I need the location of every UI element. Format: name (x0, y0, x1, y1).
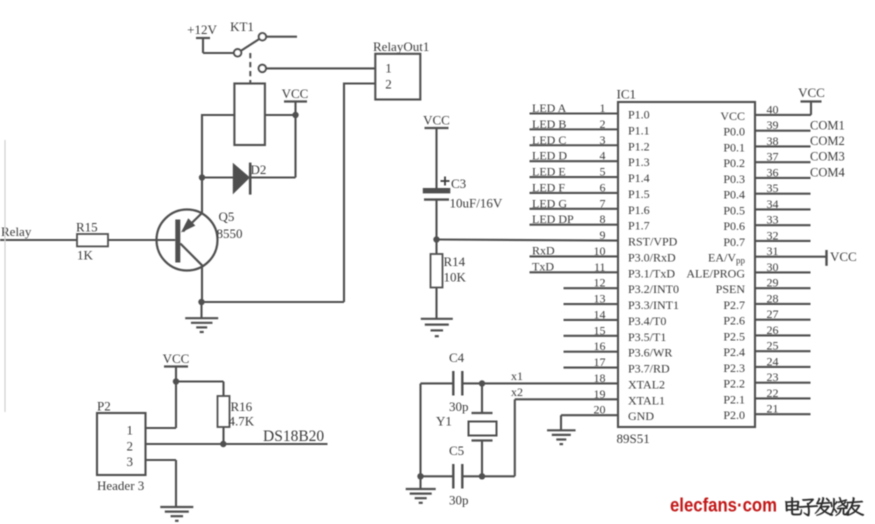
ground (R14) (421, 319, 453, 336)
IC U1 pin 30 (ALE/PROG) wire+number (755, 271, 811, 273)
wire VCC stem down (175, 367, 177, 429)
transistor Q5 body circle (157, 210, 218, 271)
svg-text:GND: GND (628, 409, 654, 423)
svg-text:VCC: VCC (423, 113, 450, 128)
IC U1 pin 17 (P3.7/RD) wire+number (564, 367, 619, 369)
svg-text:2: 2 (127, 439, 134, 454)
svg-text:P0.1: P0.1 (723, 140, 745, 154)
svg-text:39: 39 (767, 118, 779, 132)
IC U1 pin 6 (P1.5) wire+number (530, 192, 619, 194)
svg-text:P1.3: P1.3 (628, 155, 650, 169)
svg-text:1: 1 (385, 61, 392, 76)
svg-text:Y1: Y1 (436, 414, 452, 429)
svg-text:x1: x1 (511, 369, 523, 383)
svg-text:D2: D2 (251, 162, 267, 177)
svg-text:11: 11 (594, 260, 606, 274)
capacitor C5 plates (452, 464, 454, 489)
IC U1 pin 9 (RST/VPD) wire+number (437, 240, 619, 241)
scan artifact faint left border (4, 140, 6, 412)
IC U1 pin 34 (P0.5) wire+number (755, 208, 811, 210)
wire anode to diode (202, 176, 233, 178)
svg-text:LED E: LED E (532, 165, 566, 179)
IC U1 pin 12 (P3.2/INT0) wire+number (564, 287, 619, 289)
IC U1 pin 5 (P1.4) wire+number (530, 176, 619, 178)
crystal Y1 body (469, 422, 497, 436)
node C5 right junction (479, 473, 485, 479)
svg-text:LED D: LED D (532, 149, 567, 163)
svg-text:24: 24 (767, 354, 779, 368)
power VCC (pin 31 EA) (825, 250, 827, 266)
wire emitter to bottom node (201, 266, 203, 302)
svg-text:P0.6: P0.6 (723, 219, 745, 233)
wire P2 pin 3 to ground (146, 459, 177, 461)
svg-text:VCC: VCC (798, 85, 825, 100)
svg-text:P3.2/INT0: P3.2/INT0 (628, 282, 679, 296)
IC U1 pin 2 (P1.1) wire+number (530, 128, 619, 130)
capacitor C4 plates (452, 371, 454, 396)
svg-text:1: 1 (600, 101, 606, 115)
svg-text:2: 2 (385, 77, 392, 92)
svg-text:3: 3 (600, 133, 606, 147)
svg-text:7: 7 (600, 196, 606, 210)
wire C4/C5 left common (419, 383, 421, 488)
svg-text:DS18B20: DS18B20 (263, 428, 324, 445)
switch KT1 throw contact (259, 33, 266, 40)
IC U1 pin 4 (P1.3) wire+number (530, 160, 619, 162)
svg-text:P2.5: P2.5 (723, 329, 745, 343)
svg-text:+12V: +12V (187, 22, 217, 37)
svg-text:10uF/16V: 10uF/16V (450, 196, 503, 211)
svg-text:30p: 30p (449, 493, 469, 508)
wire R15 to Q5 base (108, 239, 175, 241)
IC U1 pin 18 (XTAL2) wire+number (462, 382, 618, 384)
capacitor C3 top plate (423, 188, 451, 193)
wire +12V stem (202, 38, 204, 53)
ground (crystal) (406, 489, 436, 503)
wire ground stem (200, 302, 202, 318)
wire VCC stem to junction (294, 102, 296, 116)
IC U1 pin 16 (P3.6/WR) wire+number (564, 351, 619, 353)
capacitor C5 left wire (421, 475, 453, 477)
diode D2 cathode bar (249, 163, 252, 195)
svg-text:36: 36 (767, 165, 779, 179)
svg-text:COM2: COM2 (810, 134, 845, 148)
svg-text:RxD: RxD (532, 243, 555, 257)
svg-text:1K: 1K (77, 248, 94, 263)
svg-text:COM4: COM4 (810, 165, 845, 179)
IC U1 pin 1 (P1.0) wire+number (530, 112, 619, 114)
svg-text:8550: 8550 (217, 226, 243, 241)
svg-text:30p: 30p (449, 399, 469, 414)
svg-text:P3.5/T1: P3.5/T1 (628, 330, 666, 344)
ground (header) (160, 507, 193, 521)
svg-text:29: 29 (767, 276, 779, 290)
svg-text:P3.6/WR: P3.6/WR (628, 346, 672, 360)
node emitter/ground junction (198, 299, 204, 305)
transistor Q5 base bar (175, 220, 180, 263)
svg-text:P3.1/TxD: P3.1/TxD (628, 266, 675, 280)
IC U1 pin 37 (P0.2) wire+number (755, 161, 811, 163)
svg-text:P0.2: P0.2 (723, 156, 745, 170)
svg-text:COM3: COM3 (810, 150, 845, 164)
svg-text:PSEN: PSEN (716, 282, 746, 296)
svg-text:P0.4: P0.4 (723, 188, 745, 202)
svg-text:LED DP: LED DP (532, 212, 574, 226)
svg-text:18: 18 (594, 371, 606, 385)
svg-text:P2.6: P2.6 (723, 314, 745, 328)
IC U1 pin 35 (P0.4) wire+number (755, 193, 811, 195)
diode D2 triangle (233, 163, 250, 195)
svg-text:x2: x2 (511, 385, 523, 399)
wire x1 down to crystal (481, 383, 483, 413)
svg-text:10K: 10K (444, 270, 467, 285)
logo chinese characters dianzifashaoyou (785, 497, 802, 515)
IC U1 pin 13 (P3.3/INT1) wire+number (564, 303, 619, 305)
svg-text:P2.2: P2.2 (723, 377, 745, 391)
svg-text:21: 21 (767, 402, 779, 416)
svg-text:10: 10 (594, 244, 606, 258)
svg-text:LED F: LED F (532, 180, 565, 194)
transistor Q5 collector diagonal (bottom) (180, 244, 203, 267)
capacitor C3 plus sign (441, 177, 450, 186)
wire diode cathode to VCC net (250, 176, 295, 178)
svg-text:P0.7: P0.7 (723, 235, 745, 249)
resistor R14 body (431, 254, 443, 288)
svg-text:LED C: LED C (532, 133, 566, 147)
svg-text:17: 17 (594, 355, 606, 369)
svg-text:P1.7: P1.7 (628, 219, 650, 233)
IC U1 pin 38 (P0.1) wire+number (755, 145, 811, 147)
svg-text:P1.0: P1.0 (628, 108, 650, 122)
svg-text:P1.6: P1.6 (628, 203, 650, 217)
svg-text:IC1: IC1 (617, 87, 637, 102)
wire Relay input (0, 239, 77, 241)
resistor R16 body (218, 396, 230, 427)
IC U1 pin 20 (GND) wire+number (561, 414, 618, 416)
svg-text:VCC: VCC (720, 109, 745, 123)
svg-text:R15: R15 (76, 220, 98, 235)
node VCC branch junction (173, 378, 179, 384)
IC U1 pin 33 (P0.6) wire+number (755, 224, 811, 226)
svg-text:25: 25 (767, 339, 779, 353)
svg-text:5: 5 (600, 165, 606, 179)
switch KT1 lower contact (259, 65, 266, 72)
svg-text:KT1: KT1 (230, 19, 254, 34)
wire KT1 lower contact to RelayOut1 pin 1 (266, 67, 375, 69)
svg-text:R16: R16 (231, 399, 253, 414)
wire VCC net down to diode cathode (294, 115, 296, 178)
svg-text:C4: C4 (449, 350, 465, 365)
node diode anode junction (199, 174, 205, 180)
ground (IC GND) (547, 430, 576, 444)
node x1 junction (479, 380, 485, 386)
svg-text:30: 30 (767, 260, 779, 274)
svg-text:26: 26 (767, 323, 779, 337)
svg-text:P0.5: P0.5 (723, 203, 745, 217)
IC U1 pin 39 (P0.0) wire+number (755, 130, 811, 132)
svg-text:31: 31 (767, 244, 779, 258)
IC U1 pin 36 (P0.3) wire+number (755, 177, 811, 179)
svg-text:P3.4/T0: P3.4/T0 (628, 314, 666, 328)
svg-text:37: 37 (767, 150, 779, 164)
svg-text:P2.1: P2.1 (723, 392, 745, 406)
wire IC pin 20 GND down (560, 415, 562, 429)
wire junction to R16 (176, 380, 224, 382)
IC U1 pin 24 (P2.3) wire+number (755, 366, 811, 368)
svg-text:4: 4 (600, 149, 606, 163)
svg-text:ALE/PROG: ALE/PROG (686, 266, 745, 280)
svg-text:38: 38 (767, 134, 779, 148)
svg-text:LED A: LED A (532, 101, 567, 115)
IC U1 pin 23 (P2.2) wire+number (755, 382, 811, 384)
wire RelayOut1 pin 2 to ground net (344, 82, 375, 84)
node relay/VCC junction (292, 112, 298, 118)
IC U1 pin 40 (VCC) wire+number (755, 114, 811, 116)
IC U1 pin 7 (P1.6) wire+number (530, 208, 619, 210)
IC U1 pin 14 (P3.4/T0) wire+number (564, 319, 619, 321)
svg-text:LED B: LED B (532, 117, 566, 131)
connector P2 body (97, 413, 146, 475)
switch KT1 actuator dashed link (249, 53, 251, 83)
svg-text:33: 33 (767, 213, 779, 227)
svg-text:P0.0: P0.0 (723, 125, 745, 139)
svg-text:P2.7: P2.7 (723, 298, 745, 312)
svg-text:XTAL1: XTAL1 (628, 393, 665, 407)
IC U1 pin 3 (P1.2) wire+number (530, 144, 619, 146)
capacitor C4 left wire (421, 382, 453, 384)
svg-text:Q5: Q5 (219, 209, 235, 224)
svg-text:P3.7/RD: P3.7/RD (628, 362, 670, 376)
IC U1 pin 28 (P2.7) wire+number (755, 303, 811, 305)
svg-text:3: 3 (127, 454, 134, 469)
wire R14 to ground (435, 288, 437, 319)
svg-text:12: 12 (594, 276, 606, 290)
IC U1 pin 11 (P3.1/TxD) wire+number (530, 271, 619, 273)
svg-text:28: 28 (767, 291, 779, 305)
wire bottom net to RelayOut1 pin2 net (202, 301, 345, 303)
svg-text:14: 14 (594, 307, 606, 321)
svg-text:40: 40 (767, 102, 779, 116)
crystal Y1 bottom plate (472, 439, 493, 441)
relay K1 coil (234, 84, 265, 146)
svg-text:P3.3/INT1: P3.3/INT1 (628, 298, 679, 312)
svg-text:RelayOut1: RelayOut1 (373, 39, 429, 54)
svg-text:VCC: VCC (830, 249, 857, 264)
IC U1 pin 10 (P3.0/RxD) wire+number (530, 255, 619, 257)
svg-text:1: 1 (127, 423, 134, 438)
wire VCC stem to C3 (435, 128, 437, 188)
svg-text:TxD: TxD (532, 259, 554, 273)
svg-text:23: 23 (767, 370, 779, 384)
ground (driver) (185, 318, 218, 332)
svg-text:19: 19 (594, 387, 606, 401)
resistor R15 body (77, 234, 108, 246)
crystal Y1 top plate (472, 412, 493, 414)
node R16/data junction (220, 441, 226, 447)
IC U1 pin 29 (PSEN) wire+number (755, 287, 811, 289)
svg-text:RST/VPD: RST/VPD (628, 235, 678, 249)
svg-text:R14: R14 (444, 254, 466, 269)
connector RelayOut1 body (375, 54, 420, 100)
wire +12V to switch (203, 52, 234, 54)
IC U1 pin 19 (XTAL1) wire+number (515, 398, 618, 400)
IC U1 89S51 body (618, 102, 755, 427)
wire relay coil right to VCC net (265, 114, 296, 116)
svg-text:8: 8 (600, 212, 606, 226)
IC U1 pin 31 (EA/V<tspan font-size="9" dy="2">pp</tspan>) wire+number (755, 256, 827, 258)
switch KT1 blade (241, 39, 260, 51)
svg-text:P3.0/RxD: P3.0/RxD (628, 250, 676, 264)
svg-text:P1.1: P1.1 (628, 123, 650, 137)
wire crystal to C5 node (481, 441, 483, 477)
svg-text:P1.4: P1.4 (628, 171, 650, 185)
IC U1 pin 22 (P2.1) wire+number (755, 397, 811, 399)
IC U1 pin 8 (P1.7) wire+number (530, 224, 619, 226)
svg-text:6: 6 (600, 180, 606, 194)
svg-text:elecfans·com: elecfans·com (670, 496, 777, 517)
svg-text:P0.3: P0.3 (723, 172, 745, 186)
svg-text:32: 32 (767, 228, 779, 242)
IC U1 pin 32 (P0.7) wire+number (755, 240, 811, 242)
svg-text:89S51: 89S51 (617, 431, 650, 446)
svg-text:P2: P2 (97, 399, 111, 414)
wire C3 to RST node (435, 200, 437, 254)
svg-text:C3: C3 (451, 176, 466, 191)
svg-text:VCC: VCC (163, 351, 190, 366)
svg-text:35: 35 (767, 181, 779, 195)
IC U1 pin 26 (P2.5) wire+number (755, 334, 811, 336)
node C3/R14/RST junction (433, 236, 439, 242)
svg-text:P1.2: P1.2 (628, 139, 650, 153)
svg-text:16: 16 (594, 339, 606, 353)
wire P2 pin 1 to VCC (146, 427, 177, 429)
svg-text:20: 20 (594, 403, 606, 417)
capacitor C3 bottom plate (424, 198, 449, 200)
switch KT1 pole contact (234, 49, 241, 56)
transistor Q5 emitter arrow (181, 218, 195, 232)
svg-text:P2.3: P2.3 (723, 361, 745, 375)
wire P2 pin 2 data net DS18B20 (146, 443, 328, 445)
wire from KT1 throw (266, 36, 297, 38)
node C4/C5 left junction (417, 473, 423, 479)
svg-text:Relay: Relay (1, 224, 32, 239)
svg-text:13: 13 (594, 292, 606, 306)
svg-text:P2.0: P2.0 (723, 408, 745, 422)
svg-text:4.7K: 4.7K (229, 414, 255, 429)
IC U1 pin 21 (P2.0) wire+number (755, 413, 811, 415)
svg-text:34: 34 (767, 197, 779, 211)
wire C5 to x2 (462, 475, 515, 477)
svg-text:LED G: LED G (532, 196, 567, 210)
wire relay coil left to collector net (202, 114, 234, 116)
svg-text:VCC: VCC (282, 86, 309, 101)
svg-text:C5: C5 (449, 443, 464, 458)
svg-text:15: 15 (594, 323, 606, 337)
IC U1 pin 25 (P2.4) wire+number (755, 350, 811, 352)
IC U1 pin 15 (P3.5/T1) wire+number (564, 335, 619, 337)
svg-text:XTAL2: XTAL2 (628, 377, 665, 391)
svg-text:P1.5: P1.5 (628, 187, 650, 201)
svg-text:22: 22 (767, 386, 779, 400)
svg-text:COM1: COM1 (810, 118, 845, 132)
svg-text:27: 27 (767, 307, 779, 321)
wire R16 bottom to data net (222, 427, 224, 444)
svg-text:P2.4: P2.4 (723, 345, 745, 359)
svg-text:9: 9 (600, 228, 606, 242)
svg-text:Header 3: Header 3 (97, 478, 144, 493)
svg-text:2: 2 (600, 117, 606, 131)
IC U1 pin 27 (P2.6) wire+number (755, 319, 811, 321)
transistor Q5 emitter diagonal (top) (183, 213, 203, 232)
